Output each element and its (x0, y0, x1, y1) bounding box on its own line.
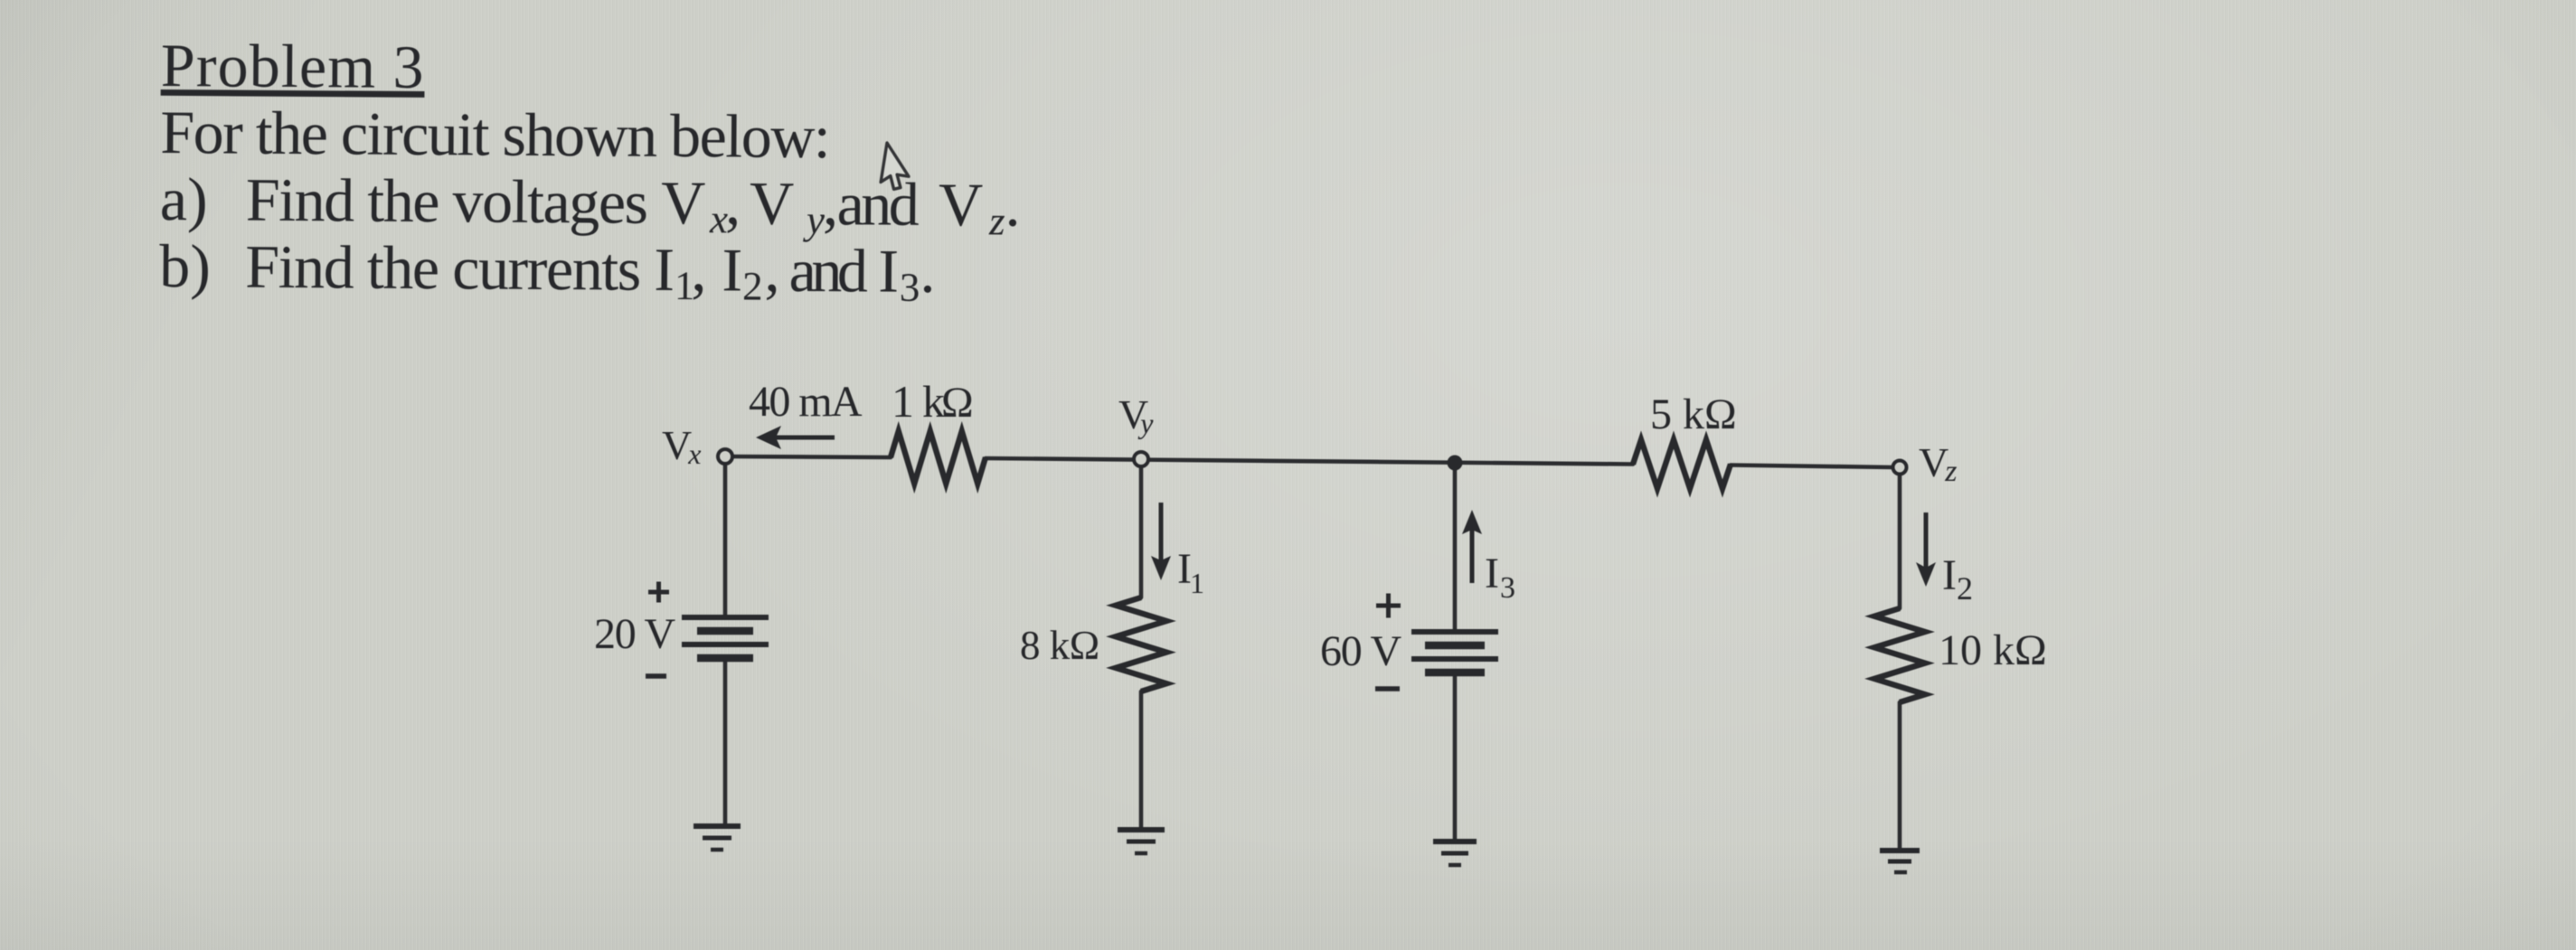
junction node dot (1448, 456, 1463, 471)
node Vx open terminal (718, 449, 732, 464)
current arrow I1 pointing down (1151, 503, 1171, 580)
wire: Vz down to 10k resistor (1898, 475, 1902, 608)
wire: 8k resistor to ground (1139, 691, 1144, 830)
svg-text:10 kΩ: 10 kΩ (1939, 626, 2047, 674)
svg-text:40 mA: 40 mA (749, 378, 863, 426)
wire: 60V battery to ground (1453, 673, 1458, 842)
svg-text:a): a) (160, 165, 208, 233)
voltage source 20V battery plates (682, 617, 769, 658)
wire: Vy down to 8k resistor (1139, 466, 1144, 597)
wire: 5k resistor to Vz (1731, 466, 1893, 468)
svg-text:8 kΩ: 8 kΩ (1020, 623, 1099, 668)
current arrow 40 mA pointing left (756, 426, 835, 449)
ground under 10k (1880, 851, 1920, 872)
svg-text:Problem 3: Problem 3 (161, 31, 425, 101)
wire top left: Vx to 1k resistor (732, 456, 891, 457)
svg-text:For the circuit shown below:: For the circuit shown below: (160, 98, 829, 171)
wire: 10k resistor to ground (1898, 702, 1902, 850)
current arrow I2 pointing down (1916, 513, 1936, 587)
resistor 10 kOhm zigzag (1874, 608, 1925, 702)
node Vy open terminal (1134, 452, 1148, 466)
svg-text:60 V: 60 V (1320, 627, 1402, 675)
svg-text:20 V: 20 V (594, 610, 676, 658)
svg-text:Vy: Vy (1118, 391, 1154, 439)
svg-text:b): b) (159, 231, 211, 300)
svg-text:Ω: Ω (941, 379, 974, 427)
svg-text:I2: I2 (1942, 551, 1973, 607)
wire: Vx down to 20V battery (723, 464, 728, 617)
minus sign of 20V source (646, 673, 666, 679)
current arrow I3 pointing up (1462, 510, 1482, 583)
plus sign of 60V source (1376, 594, 1401, 618)
svg-text:Vz: Vz (1919, 439, 1957, 488)
svg-text:I1: I1 (1177, 545, 1204, 599)
svg-text:1: 1 (892, 376, 914, 427)
node Vz open terminal (1893, 461, 1907, 475)
svg-text:Vx: Vx (662, 422, 701, 470)
minus sign of 60V source (1375, 686, 1400, 691)
resistor 8 kOhm zigzag (1116, 597, 1166, 691)
wire: junction down to 60V battery (1453, 463, 1458, 632)
resistor 1 kOhm zigzag (891, 431, 986, 484)
svg-text:Find the currents I1, I2, and: Find the currents I1, I2, and I3. (245, 232, 936, 310)
voltage source 60V battery plates (1411, 632, 1498, 673)
ground under 60V (1433, 842, 1477, 865)
wire: 1k resistor to junction to 5k resistor (986, 458, 1633, 465)
mouse cursor (880, 143, 913, 192)
svg-text:I3: I3 (1485, 550, 1515, 605)
wire: 20V battery to ground (723, 658, 728, 826)
ground under 8k (1118, 830, 1165, 853)
svg-text:5 kΩ: 5 kΩ (1650, 390, 1737, 438)
ground under 20V (694, 826, 741, 850)
resistor 5 kOhm zigzag (1633, 440, 1731, 489)
plus sign of 20V source (648, 582, 669, 603)
